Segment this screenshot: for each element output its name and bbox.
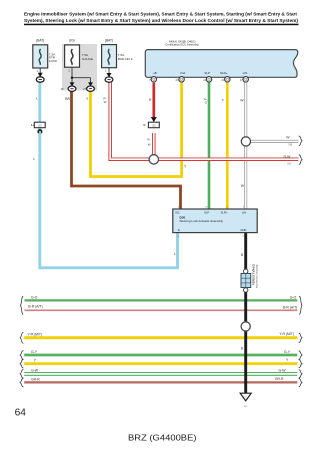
svg-text:IK: IK [143, 123, 146, 127]
svg-text:SLR+: SLR+ [220, 71, 228, 75]
svg-text:SLP: SLP [204, 210, 209, 214]
svg-text:BR: BR [65, 97, 70, 101]
svg-text:System), Steering Lock (w/ Sma: System), Steering Lock (w/ Smart Entry &… [24, 18, 299, 23]
svg-text:Certification ECU Assembly: Certification ECU Assembly [165, 43, 199, 47]
svg-text:L: L [33, 157, 35, 161]
svg-text:Junction Connector: Junction Connector [255, 264, 259, 288]
svg-text:G-W: G-W [31, 369, 39, 373]
svg-text:LIN: LIN [242, 210, 246, 214]
svg-text:SLP: SLP [204, 71, 210, 75]
svg-text:W: W [104, 100, 107, 104]
svg-text:G-Y: G-Y [284, 350, 291, 354]
svg-text:LIN: LIN [243, 71, 248, 75]
svg-text:64: 64 [15, 407, 27, 418]
svg-text:GR-R: GR-R [31, 377, 40, 381]
svg-text:G-Y: G-Y [31, 350, 38, 354]
svg-text:(IG): (IG) [69, 39, 75, 43]
svg-text:Steering Lock Actuator Assembl: Steering Lock Actuator Assembly [180, 219, 224, 223]
svg-text:G-O: G-O [290, 295, 297, 299]
svg-text:Y-R (M/T): Y-R (M/T) [28, 333, 43, 337]
svg-text:IH: IH [31, 123, 34, 127]
svg-text:LOCK: LOCK [49, 59, 58, 63]
svg-text:RAD NO.2: RAD NO.2 [118, 57, 133, 61]
svg-text:G-O: G-O [31, 296, 38, 300]
svg-text:W: W [148, 142, 151, 146]
svg-text:BRZ (G4400BE): BRZ (G4400BE) [128, 432, 197, 442]
svg-text:L: L [174, 252, 176, 256]
svg-text:IG1: IG1 [175, 210, 180, 214]
svg-text:(BAT): (BAT) [36, 39, 44, 43]
svg-text:L: L [36, 97, 38, 101]
svg-text:(BAT): (BAT) [105, 39, 113, 43]
svg-text:EC: EC [244, 397, 247, 399]
svg-text:1E5: 1E5 [38, 126, 43, 128]
svg-text:R-: R- [147, 138, 150, 142]
svg-text:3-B: 3-B [288, 143, 292, 147]
svg-text:Y-R (M/T): Y-R (M/T) [279, 332, 294, 336]
svg-text:D30: D30 [180, 215, 186, 219]
svg-text:GR-R: GR-R [275, 377, 284, 381]
svg-text:G-W: G-W [279, 369, 287, 373]
svg-text:Engine Immobiliser System (w/: Engine Immobiliser System (w/ Smart Entr… [24, 12, 298, 17]
svg-text:+B: +B [153, 71, 157, 75]
svg-text:IG2: IG2 [180, 71, 185, 75]
svg-text:EC: EC [244, 404, 248, 408]
svg-text:GND: GND [240, 228, 246, 232]
svg-text:E: E [178, 228, 180, 232]
svg-text:R-W: R-W [284, 155, 292, 159]
svg-text:B-R (A/T): B-R (A/T) [283, 305, 297, 309]
svg-text:3-D: 3-D [287, 162, 291, 166]
svg-text:SLR+: SLR+ [221, 210, 228, 214]
svg-text:B-R (A/T): B-R (A/T) [28, 305, 42, 309]
svg-text:1E5: 1E5 [152, 126, 157, 128]
svg-text:GAUGE: GAUGE [82, 57, 93, 61]
